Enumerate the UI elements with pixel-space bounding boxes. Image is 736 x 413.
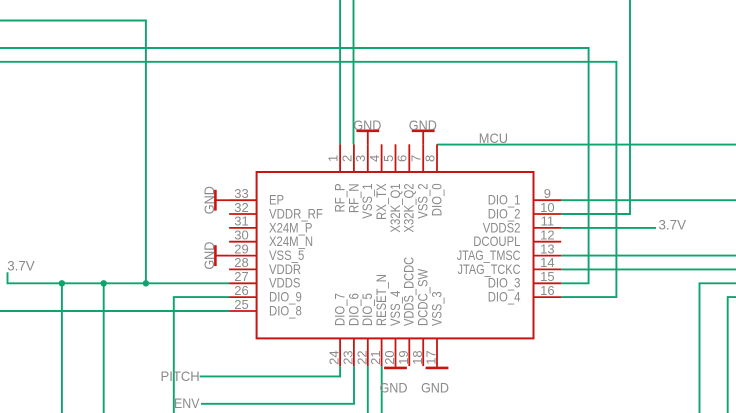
pin 3 VSS_1 (top) xyxy=(367,144,369,172)
svg-text:22: 22 xyxy=(354,350,369,364)
wire net to pin 16 DIO_4 xyxy=(0,62,616,297)
svg-text:13: 13 xyxy=(540,241,554,256)
wire net from pin 13 JTAG_TMSC xyxy=(561,255,736,257)
svg-text:16: 16 xyxy=(540,283,554,298)
pin 13 JTAG_TMSC (right) xyxy=(534,255,562,257)
wire net from pin 25 DIO_8 xyxy=(0,310,229,312)
svg-text:GND: GND xyxy=(409,117,437,133)
pin 5 X32K_Q1 (top) xyxy=(395,144,397,172)
svg-text:31: 31 xyxy=(234,214,248,229)
wire net to pin 15 DIO_3 xyxy=(0,48,589,283)
wire net 3.7V from pin 11 VDDS2 xyxy=(561,227,656,229)
svg-text:14: 14 xyxy=(540,255,554,270)
svg-text:1: 1 xyxy=(326,155,341,162)
svg-text:3: 3 xyxy=(353,155,368,162)
junction on 3.7V rail 3 xyxy=(143,280,149,286)
pin 29 VSS_5 (left) xyxy=(229,255,257,257)
wire 3.7V branch A down xyxy=(61,283,63,413)
svg-text:GND: GND xyxy=(421,379,449,395)
svg-text:10: 10 xyxy=(540,200,554,215)
pin 8 DIO_0 (top) xyxy=(436,144,438,172)
wire net RF_N to pin 2 xyxy=(353,0,355,144)
svg-text:26: 26 xyxy=(234,283,248,298)
svg-text:GND: GND xyxy=(201,242,217,270)
svg-text:33: 33 xyxy=(234,186,248,201)
junction on 3.7V rail 1 xyxy=(59,280,65,286)
pin 27 VDDS (left) xyxy=(229,282,257,284)
ground symbol at top pin 3 xyxy=(367,131,369,145)
svg-text:DIO_4: DIO_4 xyxy=(488,289,521,305)
wire net from pin 21 RESET_N xyxy=(381,366,383,413)
wire net MCU from pin 8 DIO_0 xyxy=(437,144,736,146)
wire net RF_P to pin 1 xyxy=(339,0,341,144)
pin 1 RF_P (top) xyxy=(339,144,341,172)
svg-text:27: 27 xyxy=(234,269,248,284)
ground symbol at top pin 7 xyxy=(422,131,424,145)
op-amp/IC U1 MCU body xyxy=(257,172,534,338)
svg-text:DIO_8: DIO_8 xyxy=(269,302,302,318)
pin 10 DIO_2 (right) xyxy=(534,213,562,215)
svg-text:29: 29 xyxy=(234,241,248,256)
ground symbol at bottom pin 20 xyxy=(395,366,397,368)
wire 3.7V branch B down xyxy=(103,283,105,413)
svg-text:11: 11 xyxy=(541,214,555,229)
svg-text:9: 9 xyxy=(544,186,551,201)
svg-text:8: 8 xyxy=(422,155,437,162)
svg-text:MCU: MCU xyxy=(479,130,508,146)
pin 6 X32K_Q2 (top) xyxy=(408,144,410,172)
svg-text:7: 7 xyxy=(409,155,424,162)
pin 19 VDDS_DCDC (bottom) xyxy=(408,338,410,366)
svg-text:23: 23 xyxy=(341,350,356,364)
pin 32 VDDR_RF (left) xyxy=(229,213,257,215)
pin 28 VDDR (left) xyxy=(229,268,257,270)
svg-text:17: 17 xyxy=(424,350,439,364)
pin 20 VSS_4 (bottom) xyxy=(395,338,397,366)
wire net ENV from pin 23 DIO_6 xyxy=(201,366,354,404)
svg-text:20: 20 xyxy=(382,350,397,364)
pin 30 X24M_N (left) xyxy=(229,241,257,243)
junction on 3.7V rail 2 xyxy=(101,280,107,286)
pin 11 VDDS2 (right) xyxy=(534,227,562,229)
svg-text:DIO_0: DIO_0 xyxy=(428,183,444,216)
svg-text:18: 18 xyxy=(410,350,425,364)
pin 14 JTAG_TCKC (right) xyxy=(534,268,562,270)
wire net PITCH from pin 24 DIO_7 xyxy=(200,366,340,376)
svg-text:GND: GND xyxy=(353,117,381,133)
svg-text:6: 6 xyxy=(395,155,410,162)
svg-text:28: 28 xyxy=(234,255,248,270)
pin 24 DIO_7 (bottom) xyxy=(339,338,341,366)
svg-text:15: 15 xyxy=(540,269,554,284)
wire net 3.7V rail to pin 27 VDDS xyxy=(8,272,230,283)
svg-text:VSS_3: VSS_3 xyxy=(428,291,444,326)
svg-text:5: 5 xyxy=(381,155,396,162)
pin 15 DIO_3 (right) xyxy=(534,282,562,284)
svg-text:24: 24 xyxy=(327,350,342,364)
pin 21 RESET_N (bottom) xyxy=(381,338,383,366)
wire net from pin 26 DIO_9 xyxy=(174,297,229,413)
wire net to pin 10 DIO_2 xyxy=(561,0,630,214)
pin 31 X24M_P (left) xyxy=(229,227,257,229)
pin 16 DIO_4 (right) xyxy=(534,296,562,298)
pin 22 DIO_5 (bottom) xyxy=(367,338,369,366)
pin 12 DCOUPL (right) xyxy=(534,241,562,243)
pin 7 VSS_2 (top) xyxy=(422,144,424,172)
svg-text:3.7V: 3.7V xyxy=(659,217,687,233)
pin 2 RF_N (top) xyxy=(353,144,355,172)
pin 33 EP (left) xyxy=(229,199,257,201)
svg-text:30: 30 xyxy=(234,228,248,243)
svg-text:12: 12 xyxy=(540,228,554,243)
wire net from pin 9 DIO_1 xyxy=(561,199,736,201)
pin 9 DIO_1 (right) xyxy=(534,199,562,201)
wire net from pin 22 DIO_5 xyxy=(367,366,369,413)
pin 17 VSS_3 (bottom) xyxy=(436,338,438,366)
svg-text:19: 19 xyxy=(396,350,411,364)
ground symbol at bottom pin 17 xyxy=(436,366,438,368)
ground symbol at left pin 33 xyxy=(215,199,229,201)
pin 18 DCDC_SW (bottom) xyxy=(422,338,424,366)
wire net bottom-right inner xyxy=(728,297,736,413)
svg-text:ENV: ENV xyxy=(174,395,200,411)
svg-text:21: 21 xyxy=(368,350,383,364)
pin 25 DIO_8 (left) xyxy=(229,310,257,312)
wire net from pin 14 JTAG_TCKC xyxy=(561,268,736,270)
pin 26 DIO_9 (left) xyxy=(229,296,257,298)
svg-text:4: 4 xyxy=(367,155,382,162)
svg-text:32: 32 xyxy=(234,200,248,215)
pin 4 RX_TX (top) xyxy=(381,144,383,172)
svg-text:PITCH: PITCH xyxy=(161,368,200,384)
svg-text:GND: GND xyxy=(379,379,407,395)
ground symbol at left pin 29 xyxy=(215,255,229,257)
svg-text:GND: GND xyxy=(201,186,217,214)
svg-text:3.7V: 3.7V xyxy=(7,258,35,274)
svg-text:2: 2 xyxy=(339,155,354,162)
pin 23 DIO_6 (bottom) xyxy=(353,338,355,366)
svg-text:25: 25 xyxy=(234,297,248,312)
wire net N$1 top-left to 3.7V rail xyxy=(0,21,146,284)
wire net bottom-right outer xyxy=(700,283,736,413)
